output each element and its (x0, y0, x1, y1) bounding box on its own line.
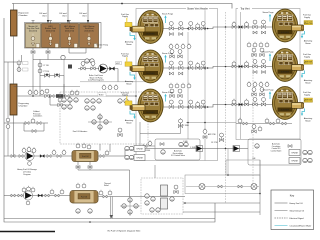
svg-text:BURNER: BURNER (281, 32, 290, 34)
gauge stack under tanks (38, 62, 42, 67)
valve group inter-row right (253, 71, 257, 74)
wire heater drains (77, 162, 79, 171)
svg-text:Key: Key (290, 194, 295, 198)
valve cluster below right box (236, 123, 292, 125)
wire (183, 202, 260, 204)
wire bypass 2 (24, 123, 44, 131)
svg-text:Steam: Steam (305, 81, 311, 84)
expansion chamber tower (11, 10, 18, 36)
strainer S2 (251, 184, 257, 190)
valve near dashed pipe (219, 133, 223, 142)
control valve B (91, 62, 95, 71)
boiler B6 (262, 87, 312, 123)
svg-text:Supply: Supply (304, 95, 310, 97)
boiler B3 (121, 89, 173, 124)
control valve A (81, 62, 85, 71)
wire after heater 2 (98, 196, 185, 198)
tank T1 (26, 24, 41, 48)
wire inner right box vertical (240, 12, 242, 139)
svg-text:Steam Purge: Steam Purge (262, 11, 273, 14)
wire riser from oval3 (139, 122, 141, 146)
strainer band box (185, 175, 260, 194)
wire band line (186, 186, 259, 188)
label box on main line (98, 93, 106, 97)
svg-text:BURNER: BURNER (281, 72, 290, 74)
wire second left vertical (7, 62, 9, 156)
wire row 3 feed right (236, 104, 273, 106)
cool down pump (99, 64, 108, 73)
svg-text:Chamber: Chamber (19, 14, 28, 17)
svg-text:LT 110: LT 110 (44, 65, 49, 67)
svg-text:Controllers: Controllers (33, 115, 42, 118)
boiler B2 (121, 50, 173, 85)
tank vent hats (32, 21, 72, 24)
tank T3 (61, 24, 79, 48)
check valve right (234, 146, 240, 151)
svg-text:Steam Purge: Steam Purge (262, 51, 273, 54)
wire main supply line (17, 95, 136, 97)
wire (154, 165, 156, 178)
wire left outer border (4, 18, 215, 222)
wire vertical pipe b (204, 9, 206, 161)
svg-text:Top Vent: Top Vent (240, 8, 250, 11)
wire U connector tanks 3-4 (69, 48, 86, 53)
pump small (61, 55, 65, 59)
wire fill drop 3 (87, 4, 89, 24)
svg-text:Steam: Steam (305, 42, 311, 45)
node junction (121, 3, 123, 5)
wire tower column lower (13, 115, 15, 157)
wire riser double (110, 197, 112, 219)
svg-text:Steam Purge: Steam Purge (162, 52, 173, 55)
wire mid line (14, 86, 81, 88)
svg-text:Fuel Oil: Fuel Oil (81, 196, 88, 198)
aux pump diamond (128, 198, 132, 202)
wire tank manifold (33, 48, 93, 60)
wire fill drop 1 (47, 4, 49, 24)
boiler B1 (121, 11, 173, 46)
wire after heater 1 (98, 149, 125, 157)
fuel oil heater H2 (70, 191, 98, 204)
wire lower header (4, 218, 215, 220)
check valve left (197, 146, 203, 151)
svg-text:Steam Purge: Steam Purge (262, 89, 273, 92)
svg-text:PT 110: PT 110 (44, 71, 50, 73)
boiler B4 (262, 9, 312, 45)
svg-text:Boiler: Boiler (99, 95, 104, 97)
svg-text:Burner Gun: Burner Gun (304, 63, 312, 65)
svg-text:Chamber: Chamber (19, 105, 28, 108)
check valve dark (40, 155, 44, 158)
svg-text:Transfer Pump: Transfer Pump (96, 45, 108, 47)
relief square (68, 65, 72, 69)
svg-text:BURNER: BURNER (146, 34, 155, 36)
wire cross line under boilers (186, 122, 236, 124)
svg-text:Supply: Supply (304, 17, 310, 19)
wire tank2 drop (47, 48, 49, 60)
steam vent header box (136, 9, 218, 161)
svg-text:C 1830: C 1830 (183, 125, 189, 127)
svg-text:Electrical Signal: Electrical Signal (290, 217, 305, 220)
wire riser c (63, 84, 65, 96)
svg-text:Fuel Oil: Fuel Oil (82, 156, 89, 158)
svg-text:Steam Vent Header: Steam Vent Header (187, 8, 208, 11)
auto recirc box left (155, 139, 200, 160)
wire row 1 feed right (236, 26, 273, 28)
wire drain connector (78, 170, 130, 197)
HFO transfer pump P1 (25, 151, 34, 160)
svg-text:(500.0m3): (500.0m3) (84, 30, 93, 32)
valve on pipe b (203, 128, 207, 133)
svg-text:Steam: Steam (126, 43, 132, 46)
wire vertical pipe a (187, 32, 189, 139)
svg-text:Circulation/Heater Water: Circulation/Heater Water (290, 225, 312, 228)
svg-text:Vent: Vent (82, 14, 87, 17)
tank group box (25, 23, 102, 49)
svg-text:Steam/Clean Oil: Steam/Clean Oil (290, 210, 305, 213)
check valve black (110, 67, 115, 71)
svg-text:CF 1710: CF 1710 (211, 142, 218, 144)
svg-text:VFD/M: VFD/M (136, 158, 143, 160)
valve group inter-row left (169, 72, 173, 75)
svg-text:Fuel Oil Heaters: Fuel Oil Heaters (73, 130, 87, 133)
svg-text:BURNER: BURNER (281, 110, 290, 112)
low flow pump box (60, 92, 148, 144)
svg-text:Supply: Supply (122, 95, 128, 97)
svg-text:Control Valve: Control Valve (271, 149, 282, 152)
wire 3-way line (40, 75, 64, 77)
svg-text:Relief: Relief (104, 185, 109, 187)
svg-text:BURNER: BURNER (146, 73, 155, 75)
wire (99, 113, 101, 131)
wire inner box top (80, 81, 147, 83)
wire lower manifold (140, 145, 155, 147)
wire (183, 211, 260, 213)
wire top header (12, 4, 232, 9)
svg-text:(LowFlow Diagram): (LowFlow Diagram) (88, 80, 104, 82)
wire pump line 2 (4, 195, 70, 197)
svg-text:Steam Purge: Steam Purge (162, 13, 173, 16)
wire heavy bottom border (0, 231, 55, 233)
check valve dark 2 (38, 194, 42, 197)
svg-text:(500.0m3): (500.0m3) (46, 30, 55, 32)
wire manifold riser (180, 118, 182, 134)
degassing chamber tower (10, 84, 17, 115)
box upper right of band (226, 160, 260, 175)
wire fill drop 2 (67, 4, 69, 24)
svg-text:AVR 1730: AVR 1730 (208, 133, 216, 136)
wire (63, 60, 65, 76)
strainer S1 (199, 184, 205, 190)
svg-text:Supply: Supply (122, 56, 128, 58)
svg-text:(500.0m3): (500.0m3) (65, 30, 74, 32)
tank T2 (42, 24, 60, 48)
wire vertical dashed electrical right (252, 45, 254, 190)
wire bypass loop (50, 96, 70, 105)
svg-text:(50.0m3): (50.0m3) (29, 30, 37, 32)
svg-text:Steam: Steam (126, 82, 132, 85)
valve group inter-row right (253, 31, 257, 34)
wire row 3 feed left (163, 105, 236, 108)
wire pump line 1 (4, 155, 72, 157)
wire cool down line (78, 69, 118, 82)
HFO transfer pump P2 (23, 191, 32, 200)
svg-text:Diagram: Diagram (23, 173, 31, 176)
wire riser b (39, 78, 41, 96)
svg-text:FO Control Valve: FO Control Valve (171, 154, 185, 157)
wire riser to main (63, 76, 65, 97)
boiler B5 (262, 49, 312, 85)
tank T4 (80, 24, 99, 48)
wire manifold horizontal (140, 133, 181, 135)
auto recirc box right (248, 139, 301, 165)
svg-text:Steam: Steam (126, 121, 132, 124)
svg-text:Burner Gun: Burner Gun (304, 23, 312, 25)
gauge stack left (17, 60, 21, 65)
svg-text:Supply: Supply (122, 16, 128, 18)
wire riser a (32, 60, 34, 97)
wire row 2 feed left (163, 67, 236, 69)
circulating pumps dashed box (141, 178, 183, 214)
svg-text:Steam Purge: Steam Purge (162, 91, 173, 94)
wire tower riser (13, 4, 15, 11)
3-way valve D (55, 73, 60, 77)
wire (39, 60, 41, 79)
svg-text:BURNER: BURNER (146, 112, 155, 114)
wire (88, 121, 112, 123)
wire vertical pipe c (227, 149, 229, 176)
svg-text:Heavy Fuel Oil: Heavy Fuel Oil (290, 203, 304, 205)
svg-text:Steam: Steam (305, 119, 311, 122)
wire (259, 160, 261, 215)
wire recirc main line (125, 148, 248, 150)
svg-text:Ex Fuel Oil System Diagram Not: Ex Fuel Oil System Diagram Note (108, 230, 141, 233)
wire vertical dashed electrical (225, 12, 227, 203)
wire low line with bypass (4, 122, 48, 124)
wire row 1 feed left (163, 27, 236, 29)
wire box drops (99, 144, 101, 151)
wire tower column (13, 36, 15, 84)
legend box (271, 190, 314, 230)
right boiler box (236, 9, 300, 140)
svg-text:Vent: Vent (62, 14, 67, 17)
svg-text:VFD/M: VFD/M (291, 153, 298, 155)
svg-text:Supply: Supply (304, 57, 310, 59)
fuel oil heater H1 (72, 151, 98, 162)
svg-text:Burner Gun: Burner Gun (304, 101, 312, 103)
svg-text:VFD/M: VFD/M (136, 149, 143, 151)
wire tank outlet left (4, 55, 22, 62)
svg-text:VFD/M: VFD/M (291, 161, 298, 163)
svg-text:Vent: Vent (42, 14, 47, 17)
valve group inter-row left (169, 33, 173, 36)
3-way valve C (45, 73, 50, 77)
wire row 2 feed right (236, 66, 273, 68)
